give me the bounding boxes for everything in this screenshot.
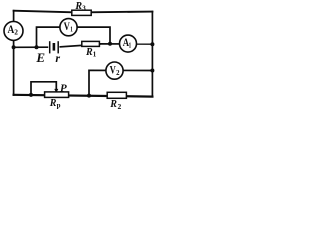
svg-text:1: 1 [70,26,73,34]
svg-text:r: r [55,51,60,65]
svg-text:p: p [57,102,61,110]
svg-text:2: 2 [14,28,18,37]
svg-text:R: R [49,98,57,109]
svg-text:E: E [35,50,45,65]
svg-text:R: R [109,99,117,110]
svg-text:R: R [74,1,82,12]
svg-text:2: 2 [116,69,120,77]
svg-text:V: V [64,19,71,33]
svg-text:1: 1 [129,41,132,49]
svg-text:P: P [60,83,67,95]
svg-text:1: 1 [93,51,97,59]
svg-text:3: 3 [82,5,86,13]
svg-text:2: 2 [118,102,122,111]
svg-text:R: R [85,47,93,58]
svg-text:V: V [110,62,116,76]
